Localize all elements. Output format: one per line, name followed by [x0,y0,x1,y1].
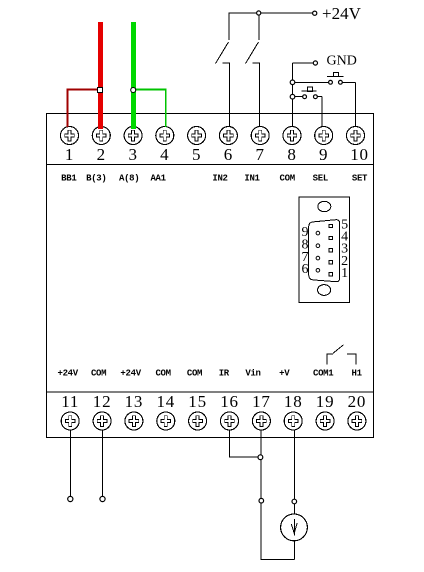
svg-text:19: 19 [316,392,335,411]
svg-text:COM: COM [91,369,106,379]
svg-text:18: 18 [284,392,303,411]
svg-text:11: 11 [61,392,79,411]
svg-text:4: 4 [160,145,169,164]
svg-text:+24V: +24V [322,4,362,23]
svg-text:16: 16 [220,392,239,411]
svg-text:COM1: COM1 [313,369,334,379]
svg-text:15: 15 [188,392,207,411]
svg-text:AA1: AA1 [150,173,166,183]
svg-text:8: 8 [287,145,296,164]
svg-text:10: 10 [350,145,369,164]
svg-text:+V: +V [279,369,290,379]
svg-text:13: 13 [125,392,144,411]
svg-text:14: 14 [156,392,175,411]
svg-text:+24V: +24V [120,369,141,379]
svg-text:IN2: IN2 [212,173,227,183]
svg-text:BB1: BB1 [61,173,77,183]
svg-text:B(3): B(3) [86,173,106,183]
svg-text:17: 17 [252,392,271,411]
svg-text:9: 9 [319,145,328,164]
svg-text:IR: IR [219,369,230,379]
svg-text:GND: GND [327,53,357,68]
svg-text:5: 5 [192,145,201,164]
svg-text:6: 6 [224,145,233,164]
svg-text:COM: COM [187,369,202,379]
svg-text:COM: COM [280,173,295,183]
svg-text:SEL: SEL [313,173,328,183]
svg-text:1: 1 [341,266,348,281]
svg-text:IN1: IN1 [244,173,260,183]
svg-text:H1: H1 [351,369,362,379]
svg-text:COM: COM [155,369,170,379]
svg-text:2: 2 [97,145,106,164]
svg-text:12: 12 [93,392,112,411]
svg-text:20: 20 [348,392,367,411]
svg-text:7: 7 [256,145,265,164]
svg-text:+24V: +24V [57,369,78,379]
svg-text:SET: SET [352,173,368,183]
svg-text:A(8): A(8) [119,173,139,183]
svg-text:6: 6 [302,262,309,277]
svg-text:3: 3 [128,145,137,164]
svg-text:Vin: Vin [245,369,260,379]
svg-text:1: 1 [65,145,74,164]
